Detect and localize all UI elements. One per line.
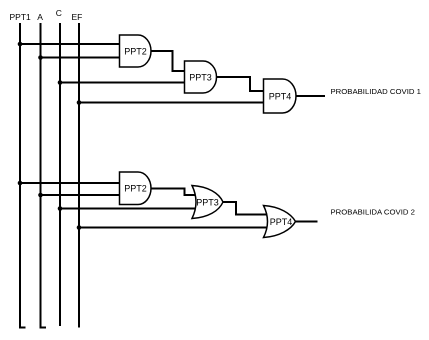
svg-text:PPT3: PPT3	[196, 198, 219, 208]
svg-text:PPT1: PPT1	[10, 12, 32, 22]
svg-text:C: C	[56, 8, 62, 18]
svg-text:PPT2: PPT2	[124, 47, 147, 57]
svg-text:PPT2: PPT2	[124, 184, 147, 194]
svg-text:PPT4: PPT4	[269, 92, 292, 102]
svg-text:PPT3: PPT3	[189, 73, 212, 83]
svg-text:EF: EF	[72, 12, 83, 22]
svg-text:PROBABILIDA COVID 2: PROBABILIDA COVID 2	[331, 208, 415, 217]
svg-text:PROBABILIDAD COVID 1: PROBABILIDAD COVID 1	[331, 87, 421, 96]
svg-text:A: A	[37, 12, 43, 22]
svg-text:PPT4: PPT4	[270, 217, 293, 227]
